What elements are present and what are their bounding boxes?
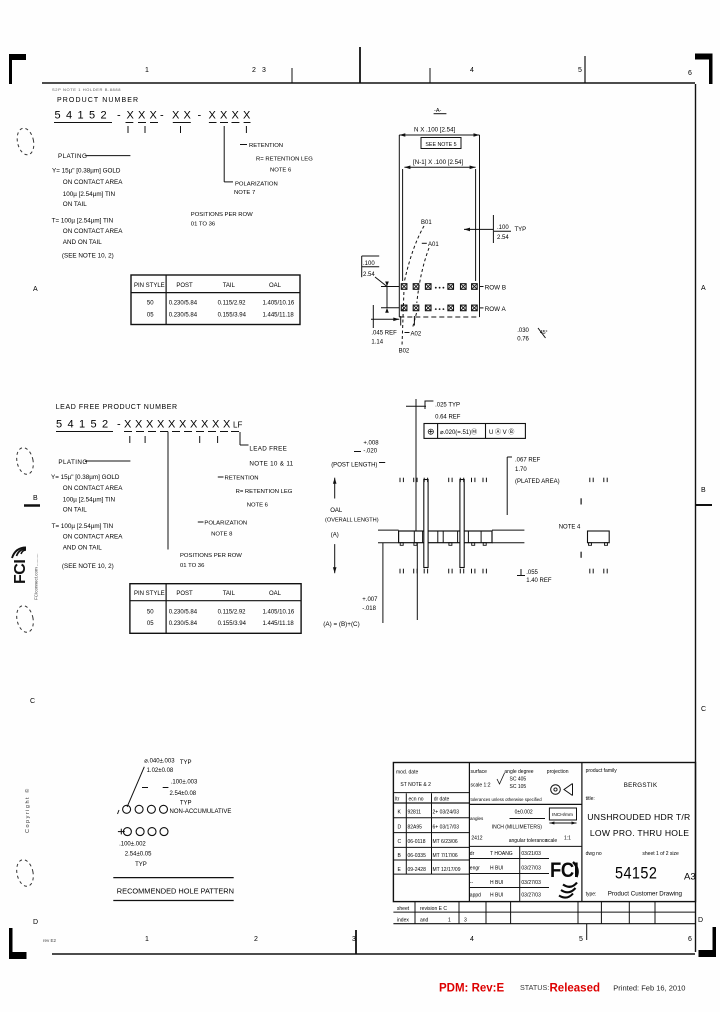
svg-text:ON CONTACT AREA: ON CONTACT AREA — [63, 534, 123, 541]
underline — [209, 122, 217, 124]
svg-text:1.40 REF: 1.40 REF — [526, 578, 552, 584]
svg-text:LEAD FREE: LEAD FREE — [249, 446, 287, 453]
svg-text:1.70: 1.70 — [515, 467, 527, 473]
svg-text:NON-ACCUMULATIVE: NON-ACCUMULATIVE — [170, 809, 232, 815]
svg-text:1.445/11.18: 1.445/11.18 — [263, 313, 295, 319]
bottom zone tick tall — [355, 930, 357, 954]
svg-text:NOTE 10 & 11: NOTE 10 & 11 — [249, 461, 293, 468]
svg-text:100µ [2.54µm] TIN: 100µ [2.54µm] TIN — [63, 497, 116, 504]
svg-text:ST NOTE & 2: ST NOTE & 2 — [400, 782, 431, 788]
svg-text:1: 1 — [145, 67, 149, 74]
svg-text:1: 1 — [79, 419, 85, 431]
svg-text:.100: .100 — [363, 261, 375, 267]
svg-text:0.64 REF: 0.64 REF — [435, 415, 461, 421]
top zone tick — [429, 68, 431, 83]
svg-text:--: -- — [470, 880, 474, 886]
svg-text:rev E2: rev E2 — [43, 938, 57, 943]
datum cross and leader — [406, 405, 426, 407]
underline — [138, 122, 146, 124]
svg-text:RETENTION: RETENTION — [249, 143, 283, 149]
svg-text:index: index — [397, 918, 409, 924]
svg-text:C: C — [701, 706, 706, 713]
underline — [220, 431, 228, 433]
svg-text:.100±.003: .100±.003 — [171, 780, 198, 786]
svg-text:100µ [2.54µm] TIN: 100µ [2.54µm] TIN — [63, 191, 116, 198]
svg-text:INCH (MILLIMETERS): INCH (MILLIMETERS) — [492, 825, 543, 831]
svg-text:1: 1 — [78, 110, 84, 122]
underline — [220, 122, 228, 124]
svg-text:.100±.002: .100±.002 — [119, 842, 146, 848]
underline — [150, 122, 158, 124]
hole pattern title — [113, 877, 233, 879]
svg-text:-.018: -.018 — [362, 606, 376, 612]
svg-text:2.54: 2.54 — [363, 272, 375, 278]
dash — [218, 476, 224, 478]
svg-text:SC 105: SC 105 — [510, 784, 527, 790]
svg-text:PLATING: PLATING — [58, 459, 87, 466]
svg-text:03/21/03: 03/21/03 — [521, 851, 541, 857]
svg-text:3: 3 — [464, 918, 467, 924]
svg-text:(POST LENGTH): (POST LENGTH) — [331, 463, 377, 469]
zone tick B left — [24, 504, 40, 507]
elbow leader .025 — [425, 401, 433, 409]
svg-text:PIN STYLE: PIN STYLE — [134, 283, 165, 289]
extension line — [475, 169, 477, 281]
svg-text:TYP: TYP — [180, 760, 192, 766]
svg-text:05: 05 — [147, 313, 154, 319]
board surface extension lines — [378, 529, 399, 531]
underline — [208, 431, 216, 433]
hole row 1 — [123, 805, 131, 813]
svg-text:A: A — [701, 285, 706, 292]
svg-text:AND ON TAIL: AND ON TAIL — [63, 545, 102, 552]
svg-text:03/27/03: 03/27/03 — [521, 866, 541, 872]
svg-text:POST: POST — [176, 283, 193, 289]
leader to LEAD FREE — [239, 432, 241, 445]
svg-text:[N-1] X .100 [2.54]: [N-1] X .100 [2.54] — [413, 159, 463, 166]
third angle projection symbol — [551, 785, 561, 795]
svg-text:OAL: OAL — [269, 591, 282, 597]
svg-text:NOTE 6: NOTE 6 — [247, 503, 269, 509]
SEE NOTE 5 box — [421, 138, 461, 149]
underline — [148, 431, 156, 433]
svg-text:ecn no: ecn no — [409, 797, 424, 803]
svg-text:0±0.002: 0±0.002 — [515, 810, 533, 816]
top zone tick — [291, 68, 293, 83]
svg-text:D: D — [398, 825, 402, 831]
svg-text:POSITIONS PER ROW: POSITIONS PER ROW — [180, 553, 242, 559]
svg-text:dwg no: dwg no — [586, 851, 602, 857]
punch hole ellipse — [14, 858, 35, 888]
svg-text:-: - — [160, 110, 164, 122]
svg-text:0.76: 0.76 — [517, 337, 529, 343]
svg-text:SC 405: SC 405 — [510, 776, 527, 782]
svg-text:scale: scale — [546, 838, 558, 844]
svg-text:2: 2 — [254, 936, 258, 943]
svg-text:3: 3 — [352, 936, 356, 943]
svg-text:ON CONTACT AREA: ON CONTACT AREA — [63, 485, 123, 492]
svg-text:1: 1 — [145, 936, 149, 943]
FCI logo vertical left margin — [12, 548, 29, 585]
svg-text:H BUI: H BUI — [490, 893, 503, 899]
revision table — [393, 792, 469, 794]
svg-text:(SEE NOTE 10, 2): (SEE NOTE 10, 2) — [62, 253, 114, 260]
svg-text:PLATING: PLATING — [58, 153, 87, 160]
svg-text:ROW B: ROW B — [485, 285, 506, 292]
field tick — [144, 436, 146, 443]
svg-text:X: X — [172, 110, 180, 122]
svg-text:OAL: OAL — [269, 283, 282, 289]
svg-text:X: X — [209, 110, 217, 122]
plated area bracket — [506, 457, 508, 515]
svg-text:tolerances unless otherwise sp: tolerances unless otherwise specified — [471, 797, 543, 802]
GD&T feature control frame — [424, 424, 525, 439]
svg-text:(A): (A) — [331, 533, 339, 539]
long leader to positions per row — [167, 432, 169, 550]
svg-text:2.54±0.05: 2.54±0.05 — [125, 852, 152, 858]
col divider 2 — [581, 763, 583, 902]
underline — [231, 431, 239, 433]
svg-text:2412: 2412 — [471, 836, 482, 842]
svg-text:1.14: 1.14 — [371, 340, 383, 346]
svg-text:LF: LF — [233, 421, 242, 430]
svg-text:5: 5 — [91, 419, 97, 431]
tall pin 1 — [424, 480, 428, 568]
svg-text:92811: 92811 — [408, 810, 422, 816]
underline — [232, 122, 240, 124]
svg-text:50: 50 — [147, 610, 154, 616]
svg-text:T HOANG: T HOANG — [490, 851, 513, 857]
svg-text:Copyright ©: Copyright © — [24, 787, 31, 833]
top zone tick — [584, 56, 586, 83]
pin style table 1 — [131, 275, 300, 325]
svg-text:01 TO 36: 01 TO 36 — [180, 563, 205, 569]
dim .100/2.54 left — [362, 255, 380, 257]
svg-text:H BUI: H BUI — [490, 880, 503, 886]
svg-text:sheet 1 of 2 size: sheet 1 of 2 size — [642, 851, 679, 857]
svg-text:A02: A02 — [411, 332, 422, 338]
tall pin 2 — [460, 480, 464, 568]
svg-text:(PLATED AREA): (PLATED AREA) — [515, 479, 560, 485]
dim .055/1.40 REF — [517, 575, 525, 577]
punch hole ellipse — [14, 604, 35, 634]
svg-text:and: and — [420, 918, 429, 924]
svg-text:Y= 15µ" [0.38µm] GOLD: Y= 15µ" [0.38µm] GOLD — [51, 474, 120, 481]
svg-text:revision E C: revision E C — [420, 906, 447, 912]
svg-text:ltr: ltr — [395, 797, 400, 803]
svg-text:6: 6 — [688, 936, 692, 943]
zone tick B right — [695, 504, 712, 506]
svg-text:C: C — [30, 698, 35, 705]
svg-text:LEAD FREE PRODUCT NUMBER: LEAD FREE PRODUCT NUMBER — [56, 404, 178, 411]
sheet revision strip — [393, 911, 695, 913]
svg-text:-: - — [117, 419, 121, 431]
corner mark top-right — [695, 54, 713, 85]
svg-text:2+ 03/24/03: 2+ 03/24/03 — [433, 810, 460, 816]
dash — [405, 332, 410, 334]
svg-text:ON CONTACT AREA: ON CONTACT AREA — [63, 228, 123, 235]
underline — [173, 122, 191, 124]
field tick — [127, 126, 129, 133]
field tick — [199, 436, 201, 443]
corner mark top-left — [9, 54, 26, 84]
field tick — [217, 436, 219, 443]
svg-text:N X .100 [2.54]: N X .100 [2.54] — [414, 127, 456, 134]
svg-text:3: 3 — [262, 67, 266, 74]
housing feet — [400, 543, 403, 546]
svg-text:4: 4 — [68, 419, 74, 431]
svg-text:(OVERALL LENGTH): (OVERALL LENGTH) — [325, 518, 379, 524]
svg-text:ROW A: ROW A — [485, 306, 507, 313]
svg-text:FCIconnect.com ..........: FCIconnect.com .......... — [34, 553, 39, 600]
pin style table 2 — [130, 584, 301, 634]
svg-text:6+ 03/17/03: 6+ 03/17/03 — [433, 825, 460, 831]
svg-text:H BUI: H BUI — [490, 866, 503, 872]
svg-text:NOTE 6: NOTE 6 — [270, 168, 292, 174]
title block outer — [393, 763, 695, 902]
svg-text:UNSHROUDED HDR T/R: UNSHROUDED HDR T/R — [587, 812, 690, 822]
field tick — [180, 126, 182, 133]
extension — [400, 316, 402, 326]
svg-text:A3: A3 — [684, 872, 696, 883]
svg-text:.067 REF: .067 REF — [515, 458, 541, 464]
svg-text:2.54: 2.54 — [497, 235, 509, 241]
svg-text:45°: 45° — [540, 330, 548, 336]
svg-text:2: 2 — [252, 67, 256, 74]
svg-text:⊕: ⊕ — [427, 427, 435, 437]
bottom zone tick — [586, 924, 588, 940]
svg-text:0.115/2.92: 0.115/2.92 — [218, 301, 247, 307]
svg-text:D: D — [33, 919, 38, 926]
drawing number 54152 — [615, 864, 657, 882]
svg-text:X: X — [190, 419, 198, 431]
single position part — [588, 531, 610, 543]
svg-text:angle degree: angle degree — [504, 769, 533, 775]
svg-text:4: 4 — [66, 110, 72, 122]
svg-text:1:1: 1:1 — [564, 836, 571, 842]
svg-text:type:: type: — [586, 892, 597, 898]
svg-text:Printed: Feb 16, 2010: Printed: Feb 16, 2010 — [613, 984, 685, 993]
svg-text:0.230/5.84: 0.230/5.84 — [169, 301, 198, 307]
svg-text:POLARIZATION: POLARIZATION — [204, 521, 247, 527]
svg-text:X: X — [212, 419, 220, 431]
svg-text:PDM: Rev:E: PDM: Rev:E — [439, 983, 505, 995]
svg-text:09-2428: 09-2428 — [408, 867, 427, 873]
svg-text:TAIL: TAIL — [223, 283, 236, 289]
svg-text:angles: angles — [470, 816, 484, 821]
right border line — [695, 84, 697, 952]
field tick — [129, 436, 131, 443]
svg-text:appd: appd — [470, 893, 481, 899]
svg-text:sheet: sheet — [397, 906, 410, 912]
svg-text:NOTE 8: NOTE 8 — [211, 532, 233, 538]
svg-text:RETENTION: RETENTION — [225, 476, 259, 482]
svg-text:A01: A01 — [428, 242, 439, 248]
svg-text:TYP: TYP — [135, 862, 147, 868]
svg-text:50: 50 — [147, 301, 154, 307]
svg-text:6: 6 — [688, 70, 692, 77]
svg-text:NOTE 4: NOTE 4 — [559, 525, 581, 531]
svg-text:Y= 15µ" [0.38µm] GOLD: Y= 15µ" [0.38µm] GOLD — [52, 168, 121, 175]
svg-text:0.155/3.94: 0.155/3.94 — [218, 621, 247, 627]
top border line — [42, 82, 695, 84]
svg-text:B: B — [33, 495, 38, 502]
svg-text:B: B — [701, 487, 706, 494]
corner mark bottom-left — [9, 928, 27, 959]
svg-text:T= 100µ [2.54µm] TIN: T= 100µ [2.54µm] TIN — [52, 523, 114, 530]
svg-text:X: X — [124, 419, 132, 431]
dash — [240, 144, 247, 146]
svg-text:+.007: +.007 — [362, 597, 378, 603]
svg-text:surface: surface — [471, 769, 488, 775]
svg-text:scale 1:2: scale 1:2 — [471, 782, 491, 788]
underline — [196, 431, 204, 433]
svg-text:X: X — [201, 419, 209, 431]
svg-text:projection: projection — [547, 769, 569, 775]
svg-text:0.230/5.84: 0.230/5.84 — [169, 610, 198, 616]
svg-text:PIN STYLE: PIN STYLE — [134, 591, 165, 597]
svg-text:NOTE 7: NOTE 7 — [234, 190, 255, 196]
svg-text:OAL: OAL — [330, 508, 343, 514]
field tick — [144, 126, 146, 133]
svg-text:TYP: TYP — [180, 801, 192, 807]
svg-text:5: 5 — [89, 110, 95, 122]
svg-text:R= RETENTION LEG: R= RETENTION LEG — [236, 489, 293, 495]
svg-text:X: X — [157, 419, 165, 431]
svg-text:(SEE NOTE 10, 2): (SEE NOTE 10, 2) — [62, 563, 114, 570]
extension lines below housing — [382, 543, 384, 623]
dim .045 REF/1.14 — [372, 305, 374, 328]
svg-text:-A-: -A- — [434, 108, 442, 114]
svg-text:RECOMMENDED HOLE PATTERN: RECOMMENDED HOLE PATTERN — [117, 887, 234, 896]
svg-text:4: 4 — [470, 936, 474, 943]
svg-text:SEE NOTE 5: SEE NOTE 5 — [425, 142, 456, 148]
svg-text:Product Customer Drawing: Product Customer Drawing — [608, 891, 683, 898]
top zone tick tall — [359, 47, 361, 83]
svg-text:MT 6/23/06: MT 6/23/06 — [433, 839, 458, 845]
svg-text:dr: dr — [470, 851, 475, 857]
top view pin field — [401, 284, 407, 290]
svg-text:POSITIONS PER ROW: POSITIONS PER ROW — [191, 212, 253, 218]
svg-text:X: X — [243, 110, 251, 122]
dim .100/2.54 TYP right — [464, 228, 493, 230]
underline — [172, 431, 180, 433]
svg-text:A: A — [33, 286, 38, 293]
svg-text:1: 1 — [448, 918, 451, 924]
svg-text:5: 5 — [578, 67, 582, 74]
dash — [198, 521, 204, 523]
short pin tip ticks — [399, 478, 401, 482]
svg-text:ON TAIL: ON TAIL — [63, 507, 87, 514]
FCI logo title block — [550, 859, 578, 898]
hole row 2 — [123, 828, 131, 836]
svg-text:2: 2 — [102, 419, 108, 431]
svg-text:2: 2 — [101, 110, 107, 122]
svg-text:R= RETENTION LEG: R= RETENTION LEG — [256, 157, 313, 163]
svg-text:2.54±0.08: 2.54±0.08 — [170, 791, 197, 797]
svg-text:06-0335: 06-0335 — [408, 853, 427, 859]
svg-text:0.115/2.92: 0.115/2.92 — [218, 610, 247, 616]
svg-text:1.405/10.16: 1.405/10.16 — [263, 610, 295, 616]
svg-text:B02: B02 — [399, 349, 410, 355]
bottom border line — [52, 953, 695, 955]
svg-text:03/27/03: 03/27/03 — [521, 893, 541, 899]
svg-text:X: X — [135, 419, 143, 431]
svg-text:angular tolerance: angular tolerance — [509, 838, 548, 844]
svg-text:-: - — [117, 110, 121, 122]
svg-text:1.405/10.16: 1.405/10.16 — [263, 301, 295, 307]
svg-text:.030: .030 — [517, 328, 529, 334]
svg-text:ON CONTACT AREA: ON CONTACT AREA — [63, 179, 123, 186]
svg-text:1.02±0.08: 1.02±0.08 — [147, 768, 174, 774]
underline — [54, 122, 112, 124]
svg-text:Released: Released — [550, 983, 601, 995]
svg-text:POLARIZATION: POLARIZATION — [235, 182, 278, 188]
svg-text:1.445/11.18: 1.445/11.18 — [263, 621, 295, 627]
svg-text:.100: .100 — [497, 225, 509, 231]
svg-text:.025 TYP: .025 TYP — [435, 403, 460, 409]
svg-text:⌀.020(=.51)Ⓜ: ⌀.020(=.51)Ⓜ — [440, 428, 477, 436]
svg-text:4: 4 — [470, 67, 474, 74]
field tick — [245, 126, 247, 133]
svg-text:BERGSTIK: BERGSTIK — [624, 782, 658, 789]
svg-text:TAIL: TAIL — [223, 591, 236, 597]
svg-text:X: X — [146, 419, 154, 431]
svg-text:X: X — [138, 110, 146, 122]
svg-text:X: X — [232, 110, 240, 122]
svg-text:TYP: TYP — [515, 227, 527, 233]
col divider 1 — [468, 763, 470, 902]
svg-text:engr: engr — [470, 866, 480, 872]
copyright vertical text — [24, 787, 31, 833]
OAL dimension line — [334, 478, 336, 499]
svg-text:X: X — [150, 110, 158, 122]
svg-text:U Ⓐ V Ⓑ: U Ⓐ V Ⓑ — [489, 428, 514, 436]
svg-text:82A95: 82A95 — [408, 825, 423, 831]
svg-text:D: D — [698, 917, 703, 924]
svg-text:dr date: dr date — [434, 797, 450, 803]
svg-text:54152: 54152 — [615, 864, 657, 882]
svg-text:T= 100µ [2.54µm] TIN: T= 100µ [2.54µm] TIN — [52, 218, 114, 225]
svg-text:ON TAIL: ON TAIL — [63, 201, 87, 208]
svg-text:FCI: FCI — [12, 560, 29, 584]
svg-text:AND ON TAIL: AND ON TAIL — [63, 239, 102, 246]
svg-text:X: X — [184, 110, 192, 122]
svg-text:POST: POST — [176, 591, 193, 597]
svg-text:S2P NOTE 1 HOLDER B.8888: S2P NOTE 1 HOLDER B.8888 — [52, 87, 121, 92]
svg-text:0.230/5.84: 0.230/5.84 — [169, 621, 198, 627]
svg-text:MT 12/17/09: MT 12/17/09 — [433, 867, 461, 873]
svg-text:B01: B01 — [421, 220, 432, 226]
top view body outline — [399, 134, 479, 136]
svg-text:product family: product family — [586, 768, 618, 774]
svg-text:-.020: -.020 — [363, 449, 377, 455]
svg-text:X: X — [168, 419, 176, 431]
dim arrows top — [399, 133, 405, 137]
svg-text:MT 7/17/06: MT 7/17/06 — [433, 853, 458, 859]
dash — [422, 242, 427, 244]
punch hole ellipse — [14, 446, 35, 476]
svg-text:title:: title: — [586, 796, 595, 802]
underline — [56, 431, 113, 433]
leader to polarization — [223, 126, 225, 182]
svg-text:(A) = (B)+(C): (A) = (B)+(C) — [323, 621, 359, 628]
svg-text:-: - — [198, 110, 202, 122]
svg-text:0.230/5.84: 0.230/5.84 — [169, 313, 198, 319]
svg-text:0.155/3.94: 0.155/3.94 — [218, 313, 247, 319]
FCIconnect.com vertical tiny text — [34, 553, 39, 600]
svg-text:05: 05 — [147, 621, 154, 627]
